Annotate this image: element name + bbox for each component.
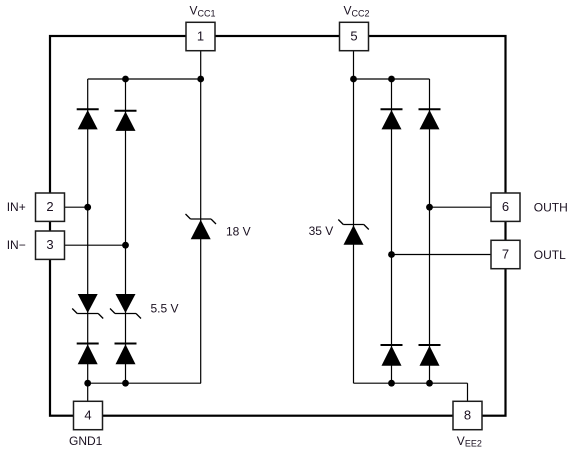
wire: IN+ stub pin2 to chain1 [65, 206, 88, 208]
diode D7 (chain2 bottom, anode to GND1 rail) [115, 344, 137, 365]
svg-text:5: 5 [350, 28, 357, 43]
wire: VCC2 top rail (node VCC2) [354, 78, 430, 80]
svg-text:IN−: IN− [7, 238, 26, 252]
junction dot: chain2/VCC1 rail [122, 76, 129, 83]
svg-text:6: 6 [502, 199, 509, 214]
junction dot: right chain1/VCC2 rail [388, 76, 395, 83]
wire: left diode chain 1 vertical [87, 79, 89, 402]
wire: pin5 to 35V zener vertical [353, 49, 355, 383]
diode D2 (chain2 top, cathode to VCC1) [115, 111, 137, 131]
wire: pin1 to 18V zener vertical [200, 49, 202, 383]
junction dot: OUTL node [388, 251, 395, 258]
diode D9 (right chain1 top, cathode to VCC2) [381, 109, 403, 129]
IC boundary box [50, 36, 506, 416]
pin 6 box [491, 193, 520, 221]
pin 7 box [491, 240, 520, 268]
svg-text:OUTL: OUTL [534, 248, 566, 262]
wire: OUTL stub pin7 to chain1 [392, 254, 492, 256]
svg-text:2: 2 [46, 199, 53, 214]
pin 1 box [186, 22, 215, 50]
svg-text:5.5 V: 5.5 V [151, 301, 179, 315]
pin 4 box [74, 401, 103, 429]
pin 5 box [340, 22, 369, 50]
junction dot: chain1/GND1 rail [84, 380, 91, 387]
svg-text:7: 7 [502, 247, 509, 262]
junction dot: right chain1/VEE2 rail [388, 380, 395, 387]
zener D4 5.5V (chain1, anode up) [72, 294, 103, 319]
svg-text:35 V: 35 V [309, 224, 334, 238]
junction dot: OUTH node [426, 204, 433, 211]
junction dot: 35V zener/VCC2 rail [350, 76, 357, 83]
wire: VCC1 top rail (node VCC1) [88, 78, 201, 80]
svg-text:VCC1: VCC1 [190, 4, 216, 19]
svg-text:GND1: GND1 [69, 434, 103, 448]
svg-text:4: 4 [84, 408, 91, 423]
junction dot: 18V zener/VCC1 rail [197, 76, 204, 83]
diode D1 (chain1 top, cathode to VCC1) [77, 109, 99, 129]
junction dot: right chain2/VEE2 rail [426, 380, 433, 387]
diode D6 (chain1 bottom, anode to GND1 rail) [77, 344, 99, 365]
zener D5 5.5V (chain2, anode up) [110, 294, 141, 319]
wire: right diode chain 2 vertical [429, 79, 431, 383]
zener D3 18V (VCC1 to GND1) [186, 214, 217, 239]
wire: IN- stub pin3 to chain2 [65, 244, 126, 246]
svg-text:VEE2: VEE2 [457, 434, 482, 449]
svg-text:OUTH: OUTH [534, 200, 568, 214]
junction dot: IN- node [122, 242, 129, 249]
pin 2 box [36, 193, 65, 221]
wire: right diode chain 1 vertical [391, 79, 393, 383]
diode D12 (right chain2 bottom, anode to VEE2 rail) [419, 345, 441, 366]
svg-text:18 V: 18 V [226, 225, 251, 239]
pin 3 box [36, 231, 65, 259]
svg-text:3: 3 [46, 237, 53, 252]
zener D8 35V (VCC2 to VEE2) [338, 220, 369, 245]
diode D10 (right chain2 top, cathode to VCC2) [419, 109, 441, 129]
wire: GND1 bottom rail [88, 382, 201, 384]
wire: left diode chain 2 vertical [125, 79, 127, 383]
diode D11 (right chain1 bottom, anode to VEE2 rail) [381, 345, 403, 366]
pin 8 box [453, 401, 482, 429]
svg-text:VCC2: VCC2 [344, 4, 370, 19]
wire: VEE2 bottom rail [354, 382, 468, 384]
wire: rail drop to pin8 [467, 383, 469, 401]
svg-text:1: 1 [197, 28, 204, 43]
junction dot: chain2/GND1 rail [122, 380, 129, 387]
wire: OUTH stub pin6 to chain2 [430, 206, 492, 208]
junction dot: IN+ node [84, 204, 91, 211]
svg-text:IN+: IN+ [7, 200, 26, 214]
svg-text:8: 8 [464, 408, 471, 423]
